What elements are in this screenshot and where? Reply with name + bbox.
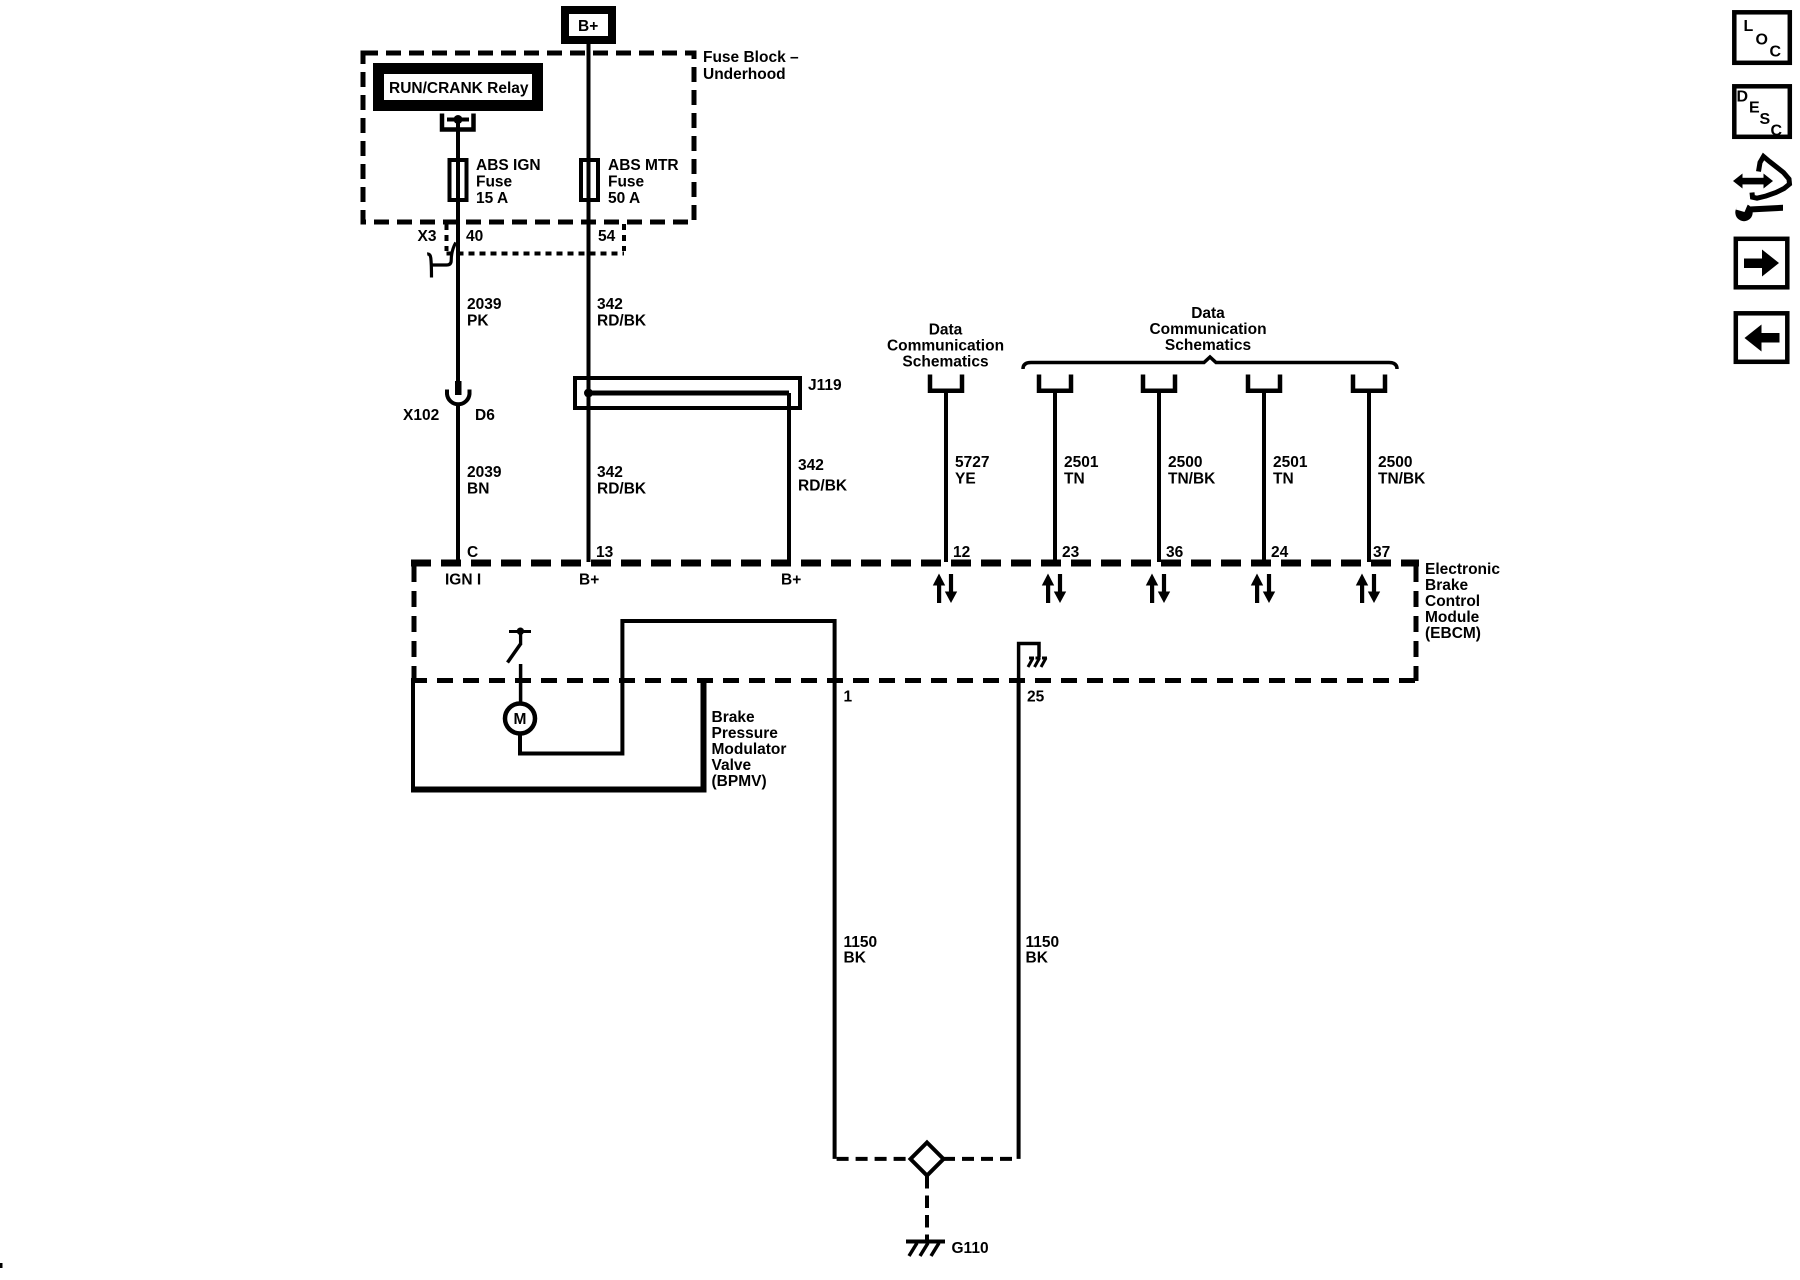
svg-text:C: C: [1770, 44, 1782, 61]
svg-text:X3: X3: [418, 228, 437, 245]
svg-text:Electronic: Electronic: [1425, 561, 1500, 578]
svg-text:Control: Control: [1425, 593, 1480, 610]
svg-text:Brake: Brake: [712, 709, 755, 726]
svg-text:Communication: Communication: [1149, 321, 1266, 338]
svg-text:RUN/CRANK Relay: RUN/CRANK Relay: [389, 80, 529, 97]
svg-text:C: C: [1771, 123, 1783, 140]
svg-text:B+: B+: [578, 18, 598, 35]
svg-text:RD/BK: RD/BK: [798, 478, 848, 495]
svg-text:23: 23: [1062, 544, 1080, 561]
svg-text:Communication: Communication: [887, 338, 1004, 355]
svg-text:BK: BK: [844, 950, 867, 967]
svg-text:L: L: [1744, 18, 1754, 35]
svg-text:E: E: [1749, 100, 1760, 117]
svg-text:Brake: Brake: [1425, 577, 1468, 594]
svg-text:12: 12: [953, 544, 970, 561]
svg-text:Pressure: Pressure: [712, 725, 779, 742]
svg-text:342: 342: [597, 296, 623, 313]
svg-text:24: 24: [1271, 544, 1289, 561]
svg-text:40: 40: [466, 228, 483, 245]
svg-text:ABS IGN: ABS IGN: [476, 157, 541, 174]
svg-text:25: 25: [1027, 689, 1045, 706]
svg-text:M: M: [514, 711, 527, 728]
svg-text:342: 342: [798, 457, 824, 474]
svg-text:Schematics: Schematics: [1165, 337, 1251, 354]
svg-text:PK: PK: [467, 313, 489, 330]
svg-text:2039: 2039: [467, 464, 502, 481]
svg-text:D6: D6: [475, 407, 495, 424]
svg-text:TN/BK: TN/BK: [1378, 471, 1426, 488]
svg-text:Module: Module: [1425, 609, 1480, 626]
svg-text:IGN I: IGN I: [445, 572, 481, 589]
svg-text:37: 37: [1373, 544, 1390, 561]
svg-text:Schematics: Schematics: [902, 354, 988, 371]
svg-text:YE: YE: [955, 471, 976, 488]
svg-text:Valve: Valve: [712, 757, 752, 774]
svg-text:50 A: 50 A: [608, 190, 640, 207]
svg-text:54: 54: [598, 228, 616, 245]
svg-text:36: 36: [1166, 544, 1184, 561]
svg-text:2501: 2501: [1273, 454, 1308, 471]
svg-text:O: O: [1756, 32, 1768, 49]
svg-text:2500: 2500: [1378, 454, 1412, 471]
svg-text:Fuse: Fuse: [476, 174, 513, 191]
svg-text:BK: BK: [1026, 950, 1049, 967]
svg-text:1150: 1150: [1026, 934, 1060, 951]
svg-text:D: D: [1737, 89, 1749, 106]
svg-text:Data: Data: [929, 322, 963, 339]
svg-text:S: S: [1760, 111, 1771, 128]
svg-text:13: 13: [596, 544, 614, 561]
svg-text:1150: 1150: [844, 934, 878, 951]
svg-text:TN: TN: [1064, 471, 1085, 488]
svg-text:Fuse: Fuse: [608, 174, 645, 191]
svg-text:B+: B+: [579, 572, 599, 589]
svg-text:(BPMV): (BPMV): [712, 773, 767, 790]
svg-text:1: 1: [844, 689, 853, 706]
svg-text:5727: 5727: [955, 454, 989, 471]
svg-text:J119: J119: [808, 377, 842, 394]
svg-text:RD/BK: RD/BK: [597, 313, 647, 330]
svg-text:ABS MTR: ABS MTR: [608, 157, 679, 174]
svg-text:G110: G110: [952, 1240, 989, 1257]
svg-text:Data: Data: [1191, 305, 1225, 322]
svg-text:(EBCM): (EBCM): [1425, 625, 1481, 642]
svg-text:TN: TN: [1273, 471, 1294, 488]
svg-text:Fuse Block –: Fuse Block –: [703, 49, 799, 66]
svg-text:C: C: [467, 544, 478, 561]
svg-text:X102: X102: [403, 407, 439, 424]
svg-text:BN: BN: [467, 481, 489, 498]
svg-text:2039: 2039: [467, 296, 502, 313]
svg-text:2501: 2501: [1064, 454, 1099, 471]
svg-text:B+: B+: [781, 572, 801, 589]
svg-text:Underhood: Underhood: [703, 66, 786, 83]
svg-text:Modulator: Modulator: [712, 741, 787, 758]
svg-text:2500: 2500: [1168, 454, 1202, 471]
svg-text:15 A: 15 A: [476, 190, 508, 207]
svg-text:RD/BK: RD/BK: [597, 481, 647, 498]
svg-text:342: 342: [597, 464, 623, 481]
svg-text:TN/BK: TN/BK: [1168, 471, 1216, 488]
